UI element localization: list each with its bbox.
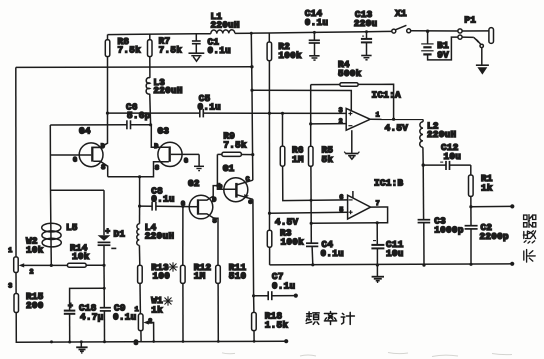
- ground under C1: [189, 53, 205, 61]
- bottom ground rail: [16, 313, 288, 344]
- svg-text:220uH: 220uH: [145, 231, 174, 242]
- svg-text:220uH: 220uH: [427, 129, 456, 140]
- varactor diode D1: [98, 190, 126, 265]
- svg-text:G3: G3: [158, 125, 170, 136]
- svg-text:2: 2: [148, 318, 152, 325]
- svg-text:0.1u: 0.1u: [151, 194, 175, 205]
- svg-text:1: 1: [376, 112, 380, 119]
- source coupling wire G4-G3: [108, 162, 169, 179]
- svg-text:500k: 500k: [338, 68, 362, 79]
- base column R9 to G1: [216, 154, 236, 189]
- resistor R4 (feedback): [311, 59, 396, 121]
- potentiometer W2: [8, 236, 67, 290]
- transistor G2 (FET): [181, 178, 218, 265]
- svg-text:100k: 100k: [281, 237, 305, 248]
- battery B1: [421, 31, 458, 60]
- output wire IC1:A with 4.5V: [370, 119, 423, 133]
- svg-text:G4: G4: [79, 125, 91, 136]
- scan noise bottom edge: [222, 353, 512, 357]
- svg-text:0.1u: 0.1u: [305, 17, 329, 28]
- svg-text:1M: 1M: [292, 154, 304, 165]
- switch X1: [392, 8, 411, 33]
- svg-text:L5: L5: [66, 222, 78, 233]
- inductor L4: [137, 206, 174, 265]
- transistor G3 (FET): [151, 125, 199, 172]
- resistor R14: [50, 242, 106, 267]
- svg-text:510: 510: [229, 271, 247, 282]
- svg-text:+: +: [105, 227, 110, 236]
- adjust mark for W1: [163, 296, 172, 305]
- svg-text:D: D: [154, 143, 158, 150]
- capacitor C5: [198, 93, 222, 118]
- ground at IC1:A: [344, 130, 359, 159]
- svg-text:G1: G1: [223, 163, 235, 174]
- svg-text:IC1:B: IC1:B: [374, 178, 404, 189]
- top supply rail: [108, 31, 392, 34]
- ground at P1: [476, 65, 489, 74]
- svg-text:0.1u: 0.1u: [272, 280, 296, 291]
- left supply column to W2: [15, 67, 17, 257]
- output IC1:B feedback loop: [310, 207, 388, 225]
- svg-text:X1: X1: [395, 8, 407, 19]
- svg-text:D: D: [101, 143, 105, 150]
- ground under C14: [309, 56, 319, 60]
- svg-text:0.1u: 0.1u: [208, 45, 232, 56]
- ground symbol on bottom rail: [76, 342, 87, 354]
- emitter column down to R18: [252, 199, 255, 312]
- transistor G1 (BJT emitter follower): [218, 163, 253, 205]
- column to R13/L4 from source node: [139, 177, 141, 206]
- svg-text:S: S: [101, 164, 105, 171]
- wire A: R8 node through C5 to IC1A pin3: [106, 112, 346, 115]
- inductor L1: [211, 11, 240, 34]
- svg-text:4.5V: 4.5V: [275, 216, 299, 227]
- capacitor C6: [126, 101, 151, 129]
- connector P1 (jack with switch): [458, 14, 494, 64]
- label 示波器 (oscilloscope), rotated: [523, 215, 535, 262]
- wire R7 to rail and down to L3: [149, 34, 151, 39]
- svg-text:S: S: [155, 164, 159, 171]
- node dot rail2 end: [250, 65, 253, 68]
- wire W2 bottom to R15: [15, 273, 17, 294]
- capacitor C18 (electrolytic): [64, 302, 104, 342]
- capacitor C12 (electrolytic): [423, 142, 471, 170]
- ground below C11: [372, 265, 384, 283]
- svg-text:7: 7: [376, 200, 380, 207]
- resistor R6: [280, 112, 347, 201]
- wire B: node to C6 to G3 drain column: [50, 123, 152, 126]
- svg-text:P1: P1: [464, 14, 476, 25]
- svg-text:e: e: [248, 199, 252, 206]
- svg-text:1000p: 1000p: [434, 225, 464, 236]
- svg-text:7.5k: 7.5k: [159, 44, 183, 55]
- svg-text:4.7µ: 4.7µ: [80, 312, 104, 323]
- capacitor C9: [100, 288, 137, 341]
- capacitor C8: [140, 185, 190, 210]
- op-amp IC1:A: [252, 90, 401, 131]
- svg-text:3: 3: [134, 339, 138, 346]
- svg-text:220uH: 220uH: [153, 85, 182, 96]
- svg-text:10u: 10u: [444, 151, 462, 162]
- svg-text:7.5k: 7.5k: [118, 45, 142, 56]
- svg-text:0.1u: 0.1u: [113, 312, 137, 323]
- resistor R18: [252, 310, 289, 341]
- adjust mark for R13: [168, 262, 177, 271]
- svg-text:IC1:A: IC1:A: [372, 90, 402, 101]
- main V+ column: [251, 33, 253, 180]
- resistor R1: [469, 165, 493, 208]
- resistor R15: [14, 291, 44, 313]
- node dot V+ taps: [250, 89, 254, 157]
- mid ground rail: [270, 262, 515, 266]
- ground at G3 gate: [194, 166, 204, 170]
- svg-text:2: 2: [339, 118, 343, 125]
- node C8 junction: [138, 205, 141, 208]
- svg-text:D: D: [212, 197, 216, 204]
- wire pin5 from divider: [268, 212, 348, 228]
- svg-text:G: G: [184, 158, 188, 165]
- inductor L2: [420, 119, 457, 166]
- svg-text:10k: 10k: [72, 251, 90, 262]
- capacitor C1: [192, 34, 231, 56]
- resistor R5: [309, 85, 334, 224]
- resistor R12: [181, 205, 212, 341]
- capacitor C2: [465, 207, 509, 266]
- capacitor C3: [418, 165, 464, 267]
- resistor R2: [267, 33, 302, 213]
- node: rail junction dots: [250, 30, 429, 35]
- svg-text:1: 1: [8, 247, 12, 254]
- svg-text:1: 1: [135, 306, 139, 313]
- capacitor C13 (electrolytic): [354, 9, 378, 55]
- svg-text:G2: G2: [188, 178, 200, 189]
- capacitor C11 (electrolytic): [371, 223, 403, 267]
- ground under C13: [361, 56, 371, 60]
- resistor R11: [216, 262, 247, 342]
- resistor R8: [105, 36, 141, 57]
- svg-text:2200p: 2200p: [480, 231, 510, 242]
- capacitor C14: [305, 8, 329, 56]
- transistor G4 (FET): [73, 125, 108, 176]
- wire R8 column: [107, 35, 109, 40]
- wire X1 to P1: [411, 30, 458, 32]
- resistor R13 (adjustable): [138, 262, 171, 314]
- svg-text:1k: 1k: [481, 182, 493, 193]
- svg-text:5k: 5k: [322, 154, 334, 165]
- svg-text:S: S: [213, 217, 217, 224]
- svg-text:1M: 1M: [194, 271, 206, 282]
- svg-text:200: 200: [26, 300, 44, 311]
- op-amp IC1:B: [339, 178, 403, 219]
- resistor R7: [148, 36, 183, 57]
- resistor R9: [217, 131, 252, 157]
- svg-text:0.1u: 0.1u: [198, 102, 222, 113]
- svg-text:3: 3: [339, 107, 343, 114]
- svg-text:9V: 9V: [437, 50, 449, 61]
- oscilloscope terminal upper: [471, 204, 514, 208]
- inductor L3: [146, 77, 183, 125]
- capacitor C4: [306, 223, 344, 266]
- svg-text:+: +: [68, 302, 73, 311]
- svg-text:220u: 220u: [354, 18, 378, 29]
- resistor R3: [267, 213, 304, 265]
- svg-text:3: 3: [8, 283, 12, 290]
- label 频率计 (frequency counter): [306, 312, 354, 325]
- potentiometer W1: [134, 295, 163, 346]
- svg-text:4.5V: 4.5V: [385, 122, 409, 133]
- svg-text:220uH: 220uH: [211, 20, 240, 31]
- capacitor C7 and output terminal: [254, 271, 298, 300]
- svg-text:1.5k: 1.5k: [265, 320, 289, 331]
- svg-text:100: 100: [153, 271, 171, 282]
- svg-text:6: 6: [339, 194, 343, 201]
- svg-text:G: G: [73, 156, 77, 163]
- inductor L5 (air coil): [42, 222, 78, 265]
- svg-text:2: 2: [30, 269, 34, 276]
- gate bias column x50: [50, 125, 104, 223]
- svg-text:10u: 10u: [386, 248, 404, 259]
- svg-text:b: b: [218, 183, 222, 190]
- svg-text:1k: 1k: [151, 304, 163, 315]
- svg-text:100k: 100k: [278, 50, 302, 61]
- svg-text:10k: 10k: [26, 244, 44, 255]
- svg-text:D1: D1: [114, 228, 126, 239]
- wire D1 column to C18/C9: [70, 265, 106, 310]
- svg-text:0.1u: 0.1u: [321, 248, 345, 259]
- svg-text:5.6p: 5.6p: [127, 110, 151, 121]
- svg-text:7.5k: 7.5k: [223, 140, 247, 151]
- svg-text:C: C: [246, 176, 250, 183]
- second supply rail y67: [16, 66, 252, 69]
